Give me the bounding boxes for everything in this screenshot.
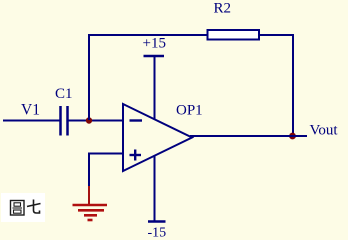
wire: down to ground (navy part): [88, 153, 90, 187]
op-amp plus sign: [130, 150, 142, 161]
wire: V1 input lead: [3, 120, 60, 122]
-15 supply bar: [148, 220, 166, 223]
wire: non-inverting input lead: [89, 153, 123, 155]
wire: capacitor to inverting input: [68, 120, 123, 122]
wire: +15 to op-amp: [154, 56, 156, 120]
wire: right vertical down to output: [292, 34, 294, 136]
wire: feedback horizontal to resistor: [88, 34, 208, 36]
+15 supply bar: [144, 55, 165, 58]
wire: output lead: [190, 135, 307, 137]
caption text 圖七 (figure seven) drawn as strokes: [11, 200, 41, 216]
op-amp U1 triangle: [123, 104, 192, 171]
node junction at inverting input: [86, 117, 92, 123]
capacitor C1: [61, 106, 68, 136]
svg-text:Vout: Vout: [310, 123, 339, 139]
resistor R2: [208, 30, 260, 40]
svg-text:+15: +15: [143, 36, 166, 52]
svg-text:-15: -15: [148, 226, 167, 240]
wire: op-amp to -15: [154, 155, 156, 222]
svg-text:V1: V1: [21, 102, 40, 119]
svg-text:C1: C1: [55, 86, 73, 102]
svg-text:R2: R2: [214, 1, 232, 17]
op-amp minus sign: [130, 119, 143, 121]
svg-text:OP1: OP1: [176, 103, 203, 119]
wire: resistor to right corner: [259, 34, 294, 36]
七 strokes: [27, 204, 41, 207]
wire: feedback vertical up: [88, 35, 90, 121]
ground symbol: [73, 205, 108, 220]
node junction at output: [289, 133, 296, 140]
caption box (white): [1, 193, 45, 222]
圖 outer box: [11, 201, 25, 216]
圖 inner strokes: [14, 203, 21, 206]
wire: down to ground (red part): [88, 186, 90, 205]
